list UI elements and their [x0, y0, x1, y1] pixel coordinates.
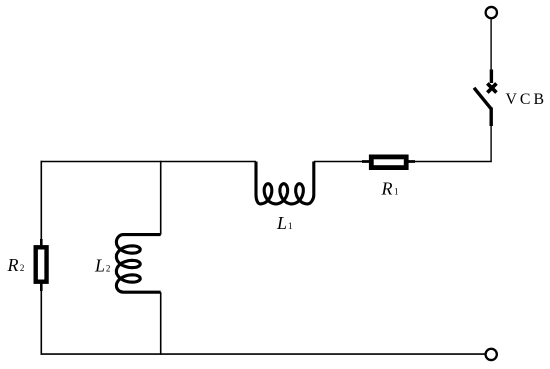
resistor R1 terminal nubs — [362, 160, 415, 163]
wire: left vertical — [40, 161, 42, 355]
svg-text:2: 2 — [20, 263, 25, 273]
wire: right vertical, switch to corner — [490, 125, 492, 162]
wire: middle vertical, junction to L2 — [160, 161, 162, 235]
resistor R2 body — [36, 247, 47, 281]
inductor L1 coil — [256, 162, 314, 204]
wire: top horizontal, L1 to R1 — [314, 161, 369, 163]
svg-text:VCB: VCB — [506, 91, 547, 108]
inductor L2 coil — [116, 235, 160, 293]
terminal circle (bottom right) — [486, 349, 497, 360]
wire: right vertical, terminal to switch — [490, 19, 492, 71]
svg-text:R: R — [381, 179, 393, 199]
switch VCB X mark — [487, 83, 496, 92]
svg-text:1: 1 — [394, 186, 399, 196]
resistor R1 body — [371, 157, 406, 168]
svg-text:L: L — [276, 213, 287, 233]
switch VCB upper contact stub — [490, 70, 493, 84]
svg-text:L: L — [94, 256, 105, 276]
wire: bottom horizontal — [41, 353, 485, 355]
terminal circle (top right) — [486, 7, 497, 18]
svg-text:2: 2 — [106, 263, 111, 273]
switch VCB blade — [474, 88, 491, 109]
svg-text:1: 1 — [288, 221, 293, 231]
wire: middle vertical, L2 to bottom — [160, 292, 162, 355]
svg-text:R: R — [7, 255, 19, 275]
wire: top horizontal, left corner to L1 — [41, 161, 256, 163]
resistor R2 terminal nubs — [40, 239, 43, 291]
wire: top horizontal, R1 to right corner — [408, 161, 492, 163]
switch VCB lower contact stub — [490, 108, 493, 127]
